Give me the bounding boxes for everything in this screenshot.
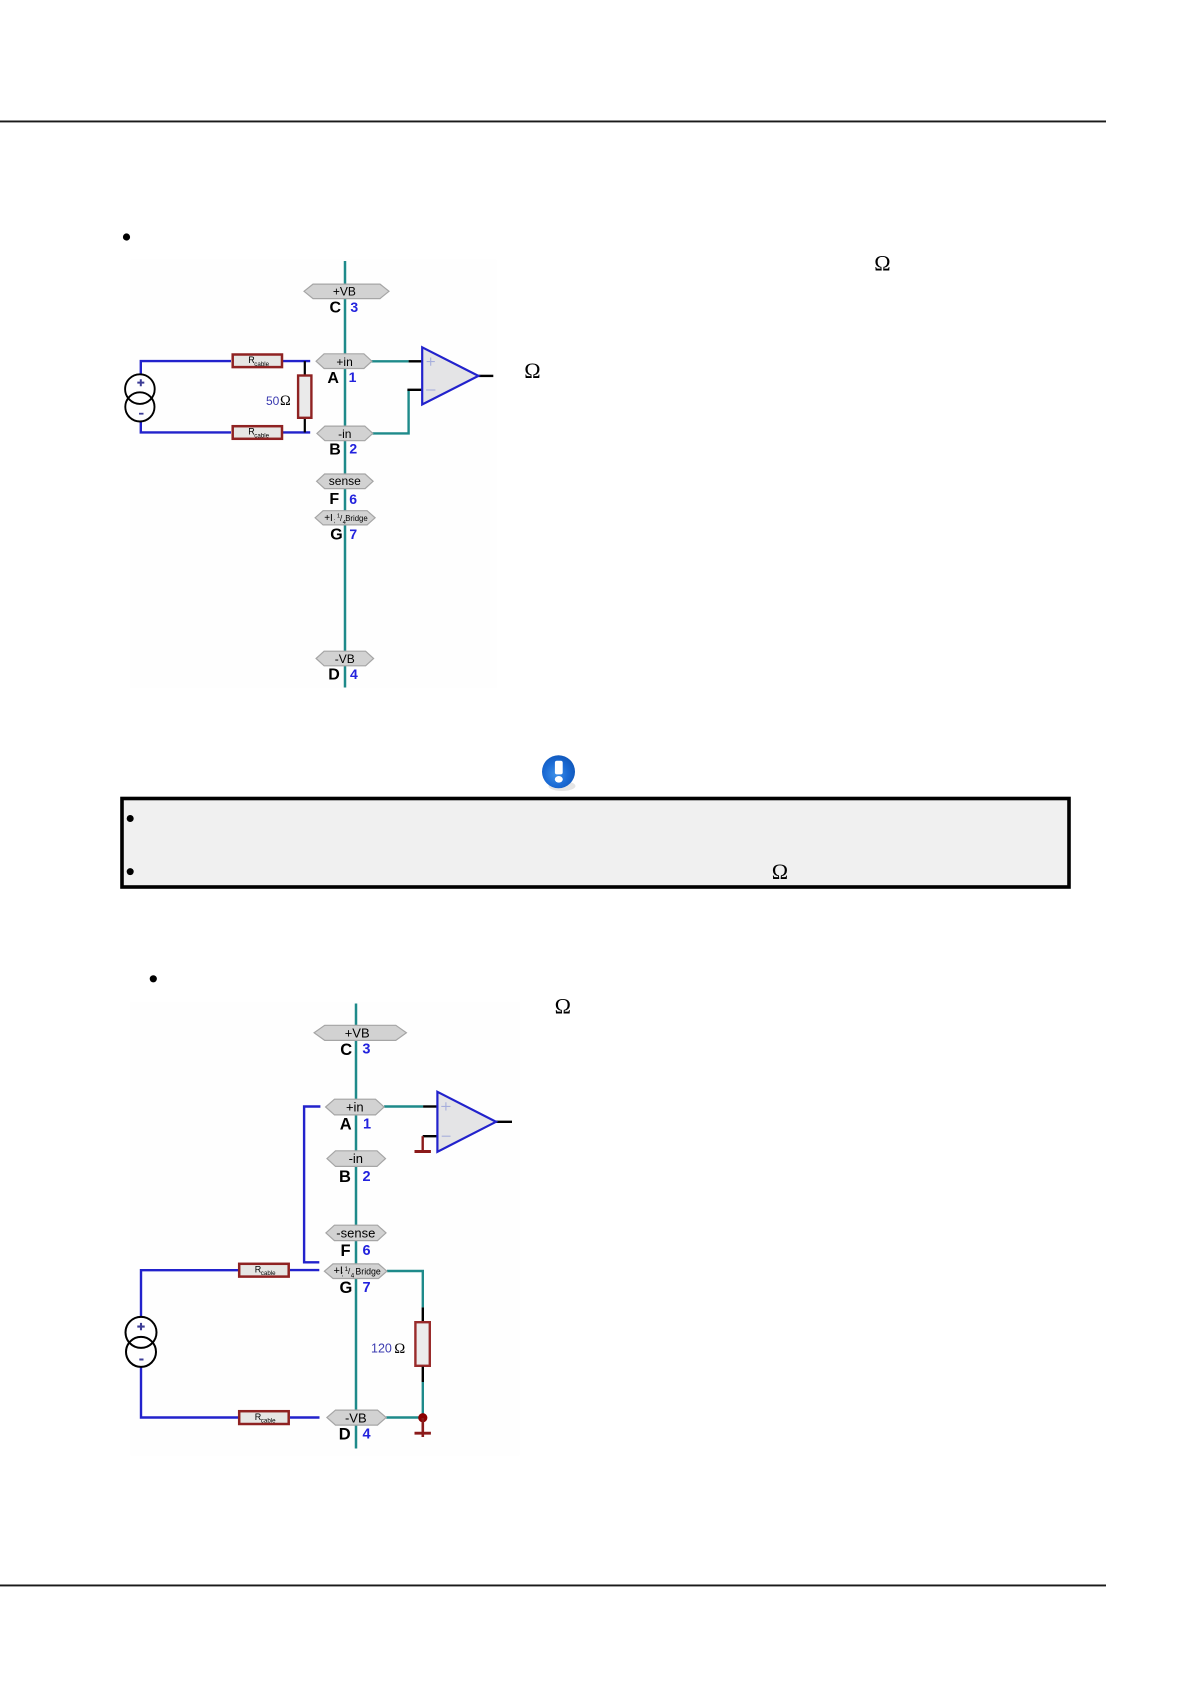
svg-text:C: C (330, 299, 342, 316)
wire: black stub bottom of 50 ohm resistor (304, 419, 306, 433)
svg-text:B: B (329, 442, 341, 459)
svg-text:+in: +in (336, 355, 352, 369)
svg-text:-sense: -sense (336, 1225, 375, 1240)
node G hexagon +I quarter bridge (315, 511, 375, 525)
wire: blue bracket +in to +I node (304, 1107, 320, 1263)
top horizontal rule (0, 121, 1106, 123)
wire: op-amp output (496, 1121, 512, 1123)
bullet item 2 (150, 975, 157, 982)
wire: black stub top of 50 ohm resistor (304, 361, 306, 376)
note bullet 2 (127, 868, 134, 875)
wire: op-amp minus input (black) (407, 389, 422, 391)
svg-text:120: 120 (371, 1342, 392, 1356)
svg-text:sense: sense (329, 474, 361, 488)
wire: -VB node to junction (teal) (386, 1416, 423, 1418)
resistor 50 ohm (298, 376, 311, 418)
op-amp plus marking (441, 1102, 450, 1110)
wire: trunk vertical teal (355, 1004, 358, 1449)
wire: +in to op-amp (teal part) (384, 1105, 423, 1107)
svg-text:-in: -in (349, 1151, 363, 1166)
op-amp minus marking (442, 1135, 451, 1137)
svg-text:7: 7 (363, 1280, 371, 1296)
wire: op-amp minus input (black) (423, 1135, 438, 1137)
ground at op-amp minus (422, 1136, 424, 1151)
svg-text:+VB: +VB (345, 1025, 370, 1040)
svg-text:G: G (340, 1279, 353, 1297)
svg-text:4: 4 (350, 666, 358, 682)
resistor Rcable bottom (233, 426, 282, 439)
svg-text:cable: cable (261, 1270, 276, 1277)
node F hexagon -sense (326, 1225, 386, 1240)
node F hexagon sense (317, 474, 374, 489)
svg-text:F: F (329, 491, 339, 508)
svg-text:A: A (327, 370, 339, 387)
svg-text:7: 7 (349, 526, 357, 542)
svg-text:C: C (340, 1041, 352, 1059)
svg-text:B: B (339, 1168, 351, 1186)
node D hexagon -VB (316, 651, 374, 666)
junction dot (418, 1413, 427, 1422)
svg-text:cable: cable (254, 361, 269, 368)
node B hexagon -in (327, 1151, 386, 1167)
op-amp U1 (422, 347, 478, 404)
svg-text:4: 4 (363, 1426, 371, 1442)
svg-text:Ω: Ω (394, 1341, 405, 1357)
resistor Rcable top (239, 1264, 289, 1277)
svg-text:Ω: Ω (555, 993, 571, 1018)
svg-text:F: F (341, 1242, 351, 1260)
wire: +in to op-amp (black part) (423, 1105, 437, 1107)
bottom horizontal rule (0, 1585, 1106, 1587)
note bullet 1 (127, 815, 134, 822)
svg-text:D: D (328, 667, 340, 684)
svg-text:cable: cable (254, 433, 269, 440)
svg-text:2: 2 (363, 1169, 371, 1185)
svg-text:Ω: Ω (280, 393, 291, 409)
ground at junction (421, 1418, 424, 1437)
wire: black stub into 120 ohm top (422, 1307, 424, 1321)
bullet item 1 (123, 233, 130, 240)
diagram 1 image background (131, 260, 497, 689)
svg-text:G: G (330, 527, 342, 544)
svg-text:-VB: -VB (335, 652, 355, 666)
svg-text:Bridge: Bridge (355, 1266, 381, 1276)
svg-text:D: D (339, 1425, 351, 1443)
svg-text:Ω: Ω (874, 250, 890, 275)
svg-text:3: 3 (362, 1042, 370, 1058)
node C hexagon +VB (314, 1025, 406, 1040)
svg-text:50: 50 (266, 394, 280, 408)
node G hexagon +I quarter bridge (324, 1264, 387, 1279)
svg-text:1: 1 (363, 1117, 371, 1133)
node B hexagon -in (317, 426, 373, 441)
svg-text:Bridge: Bridge (345, 514, 368, 523)
note box (122, 799, 1069, 888)
svg-text:-in: -in (338, 427, 351, 441)
svg-text:1: 1 (349, 369, 357, 385)
op-amp plus marking (427, 358, 435, 366)
wire: op-amp output (479, 375, 494, 377)
voltage source V1 (125, 374, 155, 404)
op-amp minus marking (426, 389, 435, 391)
wire: +I node right to 120 ohm (teal) (387, 1271, 423, 1307)
svg-text:6: 6 (349, 491, 357, 507)
svg-text:+VB: +VB (333, 285, 356, 299)
diagram 2 image background (131, 1002, 520, 1456)
note icon exclamation (542, 755, 576, 791)
wire: +in to op-amp (black part) (409, 360, 423, 362)
wire: black stub below 120 ohm (422, 1367, 424, 1382)
svg-text:;: ; (341, 1271, 343, 1278)
wire: -in up to op-amp minus (teal) (372, 390, 408, 434)
resistor Rcable top (233, 355, 282, 368)
node C hexagon +VB (304, 284, 389, 299)
svg-text:-VB: -VB (345, 1410, 367, 1425)
svg-text:+I: +I (324, 513, 333, 524)
op-amp U2 (437, 1092, 496, 1152)
wire: bottom blue wire from source to -in (141, 421, 231, 432)
svg-text:Ω: Ω (524, 358, 540, 383)
wire: trunk vertical teal (344, 261, 347, 688)
wire: +in to op-amp (teal part) (372, 360, 409, 362)
svg-text:Ω: Ω (772, 859, 788, 884)
svg-text:+in: +in (346, 1100, 364, 1115)
node D hexagon -VB (327, 1410, 386, 1425)
wire: teal down to junction (422, 1382, 424, 1418)
resistor 120 ohm (415, 1322, 429, 1366)
voltage source V2 (126, 1317, 157, 1348)
wire: top blue wire from source to +in (141, 361, 231, 374)
svg-text:A: A (340, 1116, 352, 1134)
node A hexagon +in (326, 1099, 385, 1115)
resistor Rcable bottom (239, 1411, 289, 1424)
wire: blue bottom wire source to Rcable to -VB node (141, 1367, 238, 1418)
svg-text:6: 6 (363, 1243, 371, 1259)
node A hexagon +in (316, 354, 372, 369)
svg-text:cable: cable (261, 1418, 276, 1425)
svg-text:3: 3 (350, 299, 358, 315)
svg-text:2: 2 (349, 441, 357, 457)
wire: blue top wire source to Rcable to +I node (141, 1270, 238, 1317)
